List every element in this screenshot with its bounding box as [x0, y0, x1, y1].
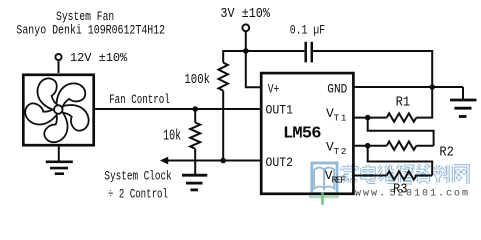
label Sanyo Denki 109R0612T4H12	[16, 23, 165, 38]
wire 10k top	[194, 109, 196, 123]
svg-text:V+: V+	[268, 83, 280, 97]
label System Clock	[104, 170, 171, 184]
fan M1 impeller	[21, 76, 91, 147]
node junction OUT2/100k	[220, 158, 226, 164]
ground (fan)	[46, 162, 73, 174]
svg-text:REF: REF	[332, 174, 347, 185]
wire 12V to fan	[58, 60, 60, 73]
svg-text:R1: R1	[396, 94, 411, 110]
label R1	[396, 94, 411, 110]
svg-text:3V ±10%: 3V ±10%	[220, 5, 270, 21]
capacitor C1 0.1uF	[306, 42, 312, 63]
label R2	[439, 144, 453, 160]
svg-text:0.1 µF: 0.1 µF	[290, 23, 325, 38]
label OUT2 pin	[266, 155, 293, 170]
label GND pin	[327, 82, 347, 97]
svg-text:LM56: LM56	[283, 124, 322, 143]
wire capacitor to GND net	[313, 51, 432, 87]
wire 3V down	[245, 31, 247, 51]
wire R2 right to VT1 return	[416, 145, 433, 147]
ground (10k)	[182, 175, 207, 190]
svg-text:10k: 10k	[163, 128, 181, 144]
svg-text:OUT2: OUT2	[266, 155, 293, 170]
svg-text:OUT1: OUT1	[266, 103, 293, 118]
svg-text:GND: GND	[327, 82, 347, 97]
svg-text:T1: T1	[334, 112, 347, 123]
arrowhead system clock	[160, 157, 168, 165]
label 3V ±10%	[220, 5, 270, 21]
resistor 10k	[190, 123, 200, 149]
resistor 100k	[219, 63, 228, 91]
label 0.1 µF	[290, 23, 325, 38]
label 100k	[184, 72, 210, 88]
wire V+ drop	[246, 51, 260, 87]
svg-text:System Clock: System Clock	[104, 170, 171, 184]
svg-text:R3: R3	[393, 181, 408, 197]
fan M1 (box)	[23, 75, 93, 145]
wire 10k bottom	[194, 149, 196, 176]
wire system clock (OUT2 net) with arrow	[166, 160, 260, 162]
wire R3 right	[415, 175, 433, 177]
resistor R1	[387, 113, 417, 121]
svg-text:÷ 2 Control: ÷ 2 Control	[108, 188, 168, 202]
label ÷ 2 Control	[108, 188, 168, 202]
wire ground drop	[462, 87, 464, 100]
watermark www.520101.com	[355, 189, 470, 200]
wire fan control (OUT1 net)	[95, 108, 261, 110]
wire 100k down to OUT2 net	[222, 91, 224, 161]
resistor R2	[387, 142, 417, 150]
watermark book icon	[312, 163, 337, 194]
svg-text:12V ±10%: 12V ±10%	[70, 51, 128, 65]
label OUT1 pin	[266, 103, 293, 118]
label R3	[393, 181, 408, 197]
wire R1 to GND net	[416, 87, 432, 118]
label System Fan	[56, 10, 114, 25]
wire VT1 pin	[354, 117, 387, 119]
node junction 3V	[243, 48, 249, 54]
op-amp U1 LM56 (box)	[261, 73, 353, 194]
wire 3V to 100k	[223, 51, 246, 63]
label V+ pin	[268, 83, 280, 97]
svg-text:R2: R2	[439, 144, 453, 160]
node junction GND/cap/R1	[429, 84, 435, 90]
node junction OUT1/10k	[192, 106, 198, 112]
svg-text:T2: T2	[334, 146, 347, 157]
svg-text:Sanyo Denki 109R0612T4H12: Sanyo Denki 109R0612T4H12	[16, 23, 165, 38]
wire VT2 pin	[354, 145, 387, 147]
terminal 12V	[55, 54, 61, 60]
ground (GND pin)	[450, 100, 477, 117]
resistor R3	[387, 171, 417, 179]
svg-text:www.: www.	[355, 189, 387, 200]
svg-text:Fan Control: Fan Control	[109, 94, 170, 108]
svg-text:100k: 100k	[184, 72, 210, 88]
wire VREF pin	[354, 175, 387, 177]
label Fan Control	[109, 94, 170, 108]
terminal 3V	[242, 24, 249, 31]
watermark green cross	[309, 193, 339, 206]
wire 3V rail to capacitor	[246, 50, 305, 52]
node junction VT2	[365, 143, 371, 149]
wire VT1 return to R2	[368, 118, 434, 146]
node junction VT1	[365, 115, 371, 121]
wire VT2 return to R3	[368, 146, 433, 176]
label 10k	[163, 128, 181, 144]
wire GND pin to ground	[354, 86, 464, 88]
svg-text:0101.com: 0101.com	[406, 189, 470, 200]
wire fan to ground	[58, 145, 60, 162]
